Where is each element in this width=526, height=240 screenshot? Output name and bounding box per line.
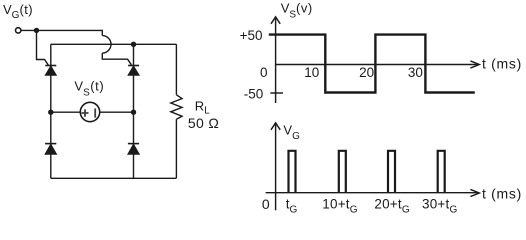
svg-text:30+tG: 30+tG <box>422 196 457 215</box>
graph2 pulse 4 <box>438 151 445 193</box>
svg-text:0: 0 <box>260 65 268 80</box>
svg-text:10+tG: 10+tG <box>322 196 357 215</box>
thyristor SCR2 <box>128 66 139 76</box>
diode D4 <box>128 144 140 155</box>
wire source branch <box>51 111 134 113</box>
graph1 y-axis <box>271 17 280 103</box>
source VS circle <box>80 102 99 121</box>
svg-text:tG: tG <box>286 196 298 215</box>
wire right column <box>133 44 135 178</box>
resistor RL <box>171 95 182 119</box>
graph2 pulse 3 <box>388 151 395 193</box>
wire hop over rail <box>102 36 111 53</box>
svg-text:50 Ω: 50 Ω <box>188 115 219 131</box>
svg-text:30: 30 <box>408 65 423 80</box>
wire top from terminal <box>21 30 102 35</box>
wire gate lead SCR2 <box>102 53 131 65</box>
graph1 square waveform <box>269 35 475 93</box>
wire left column <box>50 44 52 178</box>
svg-text:t (ms): t (ms) <box>482 185 522 201</box>
node dot rail <box>131 42 136 47</box>
svg-text:10: 10 <box>304 65 319 80</box>
graph2 x-axis <box>266 189 480 196</box>
node dot source right <box>131 110 136 115</box>
wire top rail <box>51 43 177 45</box>
graph2 y-axis <box>271 123 280 211</box>
svg-text:+50: +50 <box>240 28 263 43</box>
graph2 pulse 1 <box>289 151 296 193</box>
svg-text:VG: VG <box>283 122 300 142</box>
diode D3 <box>45 144 57 155</box>
svg-text:20+tG: 20+tG <box>374 196 409 215</box>
svg-text:VS(t): VS(t) <box>74 79 104 99</box>
svg-text:VG(t): VG(t) <box>3 2 33 21</box>
svg-text:t (ms): t (ms) <box>482 55 522 71</box>
graph1 x-axis <box>276 61 480 68</box>
graph1 tick -50 <box>270 92 283 94</box>
wire RL column <box>175 44 177 178</box>
svg-text:-50: -50 <box>244 86 264 101</box>
svg-text:VS(v): VS(v) <box>281 1 313 21</box>
graph2 pulse 2 <box>339 151 346 193</box>
wire gate lead SCR1 <box>37 30 49 65</box>
svg-text:20: 20 <box>359 65 374 80</box>
node dot source left <box>48 110 53 115</box>
svg-text:0: 0 <box>262 196 270 212</box>
svg-text:RL: RL <box>195 98 210 116</box>
node junction dot top <box>34 28 39 33</box>
thyristor SCR1 <box>45 66 56 76</box>
terminal VG <box>16 28 21 33</box>
wire bottom rail <box>51 177 177 179</box>
